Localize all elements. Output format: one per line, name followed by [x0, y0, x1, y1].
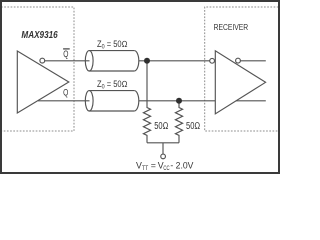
svg-text:TT: TT	[142, 165, 148, 172]
svg-text:Q: Q	[63, 49, 68, 59]
svg-text:=: =	[151, 161, 156, 171]
svg-text:50Ω: 50Ω	[186, 121, 200, 132]
svg-text:CC: CC	[163, 165, 170, 172]
svg-text:MAX9316: MAX9316	[21, 30, 58, 41]
svg-text:Q: Q	[63, 87, 68, 97]
svg-text:- 2.0V: - 2.0V	[170, 161, 193, 171]
svg-text:50Ω: 50Ω	[154, 121, 168, 132]
svg-text:RECEIVER: RECEIVER	[214, 23, 249, 32]
